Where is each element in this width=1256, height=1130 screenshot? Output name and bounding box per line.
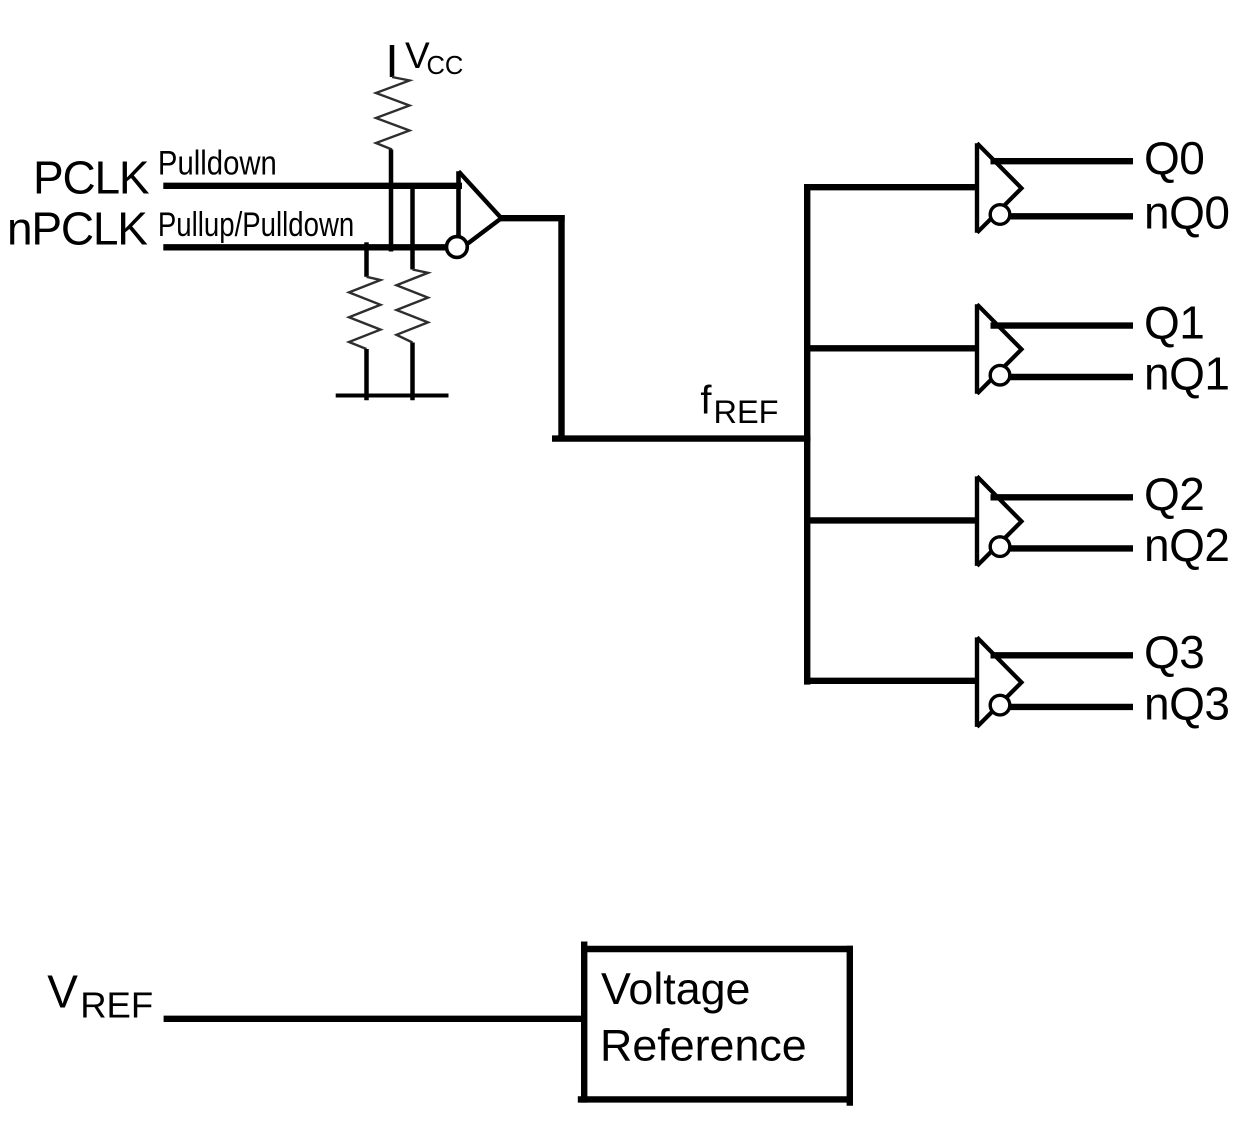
input buffer U1 left edge bbox=[456, 171, 461, 237]
svg-text:f: f bbox=[700, 378, 712, 422]
output buffer U3 triangle slants bbox=[977, 304, 1022, 394]
output buffer U4 inverting bubble bbox=[990, 537, 1010, 557]
input buffer U1 inverting bubble bbox=[447, 237, 468, 258]
output buffer U5 left edge bbox=[975, 637, 979, 727]
wire Q0 output bbox=[991, 158, 1134, 164]
svg-text:Q1: Q1 bbox=[1144, 296, 1204, 348]
VREF label bbox=[47, 965, 153, 1025]
voltage reference box right border bbox=[847, 946, 853, 1106]
output buffer U4 left edge bbox=[975, 476, 979, 566]
svg-text:nQ1: nQ1 bbox=[1144, 347, 1229, 399]
svg-text:Pullup/Pulldown: Pullup/Pulldown bbox=[158, 205, 354, 244]
svg-text:Reference: Reference bbox=[600, 1021, 807, 1071]
wire R3 to ground bbox=[364, 349, 369, 400]
svg-text:CC: CC bbox=[427, 52, 464, 80]
svg-text:Q0: Q0 bbox=[1144, 132, 1204, 184]
voltage reference box left border bbox=[581, 942, 587, 1103]
wire Q3 output bbox=[991, 652, 1134, 658]
wire nQ0 output bbox=[1009, 213, 1134, 219]
node fREF label bbox=[700, 378, 778, 430]
svg-text:Pulldown: Pulldown bbox=[158, 143, 277, 182]
wire R2 to ground bbox=[410, 343, 415, 401]
wire R1 to nPCLK node bbox=[389, 150, 394, 252]
svg-text:Voltage: Voltage bbox=[601, 964, 750, 1014]
output buffer U3 left edge bbox=[975, 304, 979, 394]
svg-text:nQ0: nQ0 bbox=[1144, 187, 1229, 239]
wire nPCLK pulldown bbox=[364, 242, 369, 276]
voltage reference box top border bbox=[581, 946, 853, 952]
wire Q1 output bbox=[991, 322, 1134, 328]
svg-text:Q2: Q2 bbox=[1144, 468, 1204, 520]
wire nQ2 output bbox=[1009, 545, 1134, 551]
output buffer U2 inverting bubble bbox=[990, 205, 1010, 225]
svg-text:PCLK: PCLK bbox=[33, 152, 150, 204]
svg-text:nQ3: nQ3 bbox=[1144, 677, 1229, 729]
wire nPCLK input bbox=[163, 244, 446, 250]
VCC stub wire bbox=[390, 45, 395, 77]
wire PCLK pulldown (crosses nPCLK line) bbox=[410, 189, 415, 270]
wire nQ3 output bbox=[1009, 704, 1134, 710]
wire fREF horizontal bbox=[552, 435, 810, 441]
input buffer U1 triangle slants bbox=[459, 171, 502, 244]
wire Q2 output bbox=[991, 494, 1134, 500]
wire VREF input bbox=[164, 1016, 582, 1022]
svg-text:REF: REF bbox=[714, 394, 779, 430]
wire U1 output vertical bbox=[558, 215, 564, 442]
VCC label bbox=[405, 35, 463, 80]
wire nQ1 output bbox=[1009, 374, 1134, 380]
svg-text:nPCLK: nPCLK bbox=[7, 203, 148, 255]
voltage reference box bottom border bbox=[578, 1096, 853, 1102]
wire branch 3 bbox=[804, 678, 978, 684]
wire PCLK input bbox=[163, 183, 462, 189]
svg-text:nQ2: nQ2 bbox=[1144, 519, 1229, 571]
resistor R2 pulldown on PCLK bbox=[397, 270, 429, 343]
wire U1 output bbox=[499, 215, 565, 221]
ground rail bbox=[336, 394, 449, 398]
output buffer U3 inverting bubble bbox=[990, 365, 1010, 385]
output buffer U5 triangle slants bbox=[977, 637, 1022, 727]
output buffer U2 triangle slants bbox=[977, 143, 1022, 233]
voltage reference box text bbox=[600, 964, 807, 1071]
svg-text:REF: REF bbox=[80, 984, 153, 1025]
wire distribution vertical bbox=[804, 184, 810, 685]
wire branch 0 bbox=[804, 184, 978, 190]
output buffer U4 triangle slants bbox=[977, 476, 1022, 566]
svg-text:Q3: Q3 bbox=[1144, 626, 1204, 678]
wire branch 1 bbox=[804, 345, 978, 351]
resistor R3 pulldown on nPCLK bbox=[349, 277, 381, 349]
output buffer U5 inverting bubble bbox=[990, 695, 1010, 715]
resistor R1 pullup to VCC bbox=[376, 77, 410, 150]
svg-text:V: V bbox=[47, 965, 78, 1017]
output buffer U2 left edge bbox=[975, 143, 979, 233]
wire branch 2 bbox=[804, 517, 978, 523]
